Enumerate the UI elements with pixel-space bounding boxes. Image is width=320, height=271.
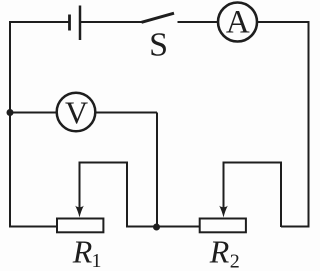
wire bottom middle R1 loop to junction xyxy=(126,226,158,228)
wire ammeter to top-right corner xyxy=(257,21,309,23)
wire top-left horizontal xyxy=(10,21,69,23)
svg-text:R: R xyxy=(72,234,93,270)
svg-text:2: 2 xyxy=(230,251,240,271)
wire switch to ammeter xyxy=(178,21,219,23)
node junction left (voltmeter tap) xyxy=(7,109,14,116)
label R2 xyxy=(209,234,240,271)
wire R2 wiper loop xyxy=(224,163,282,228)
wire bottom-left to R1 xyxy=(10,226,57,228)
svg-text:S: S xyxy=(149,27,168,64)
wire left to voltmeter xyxy=(10,112,57,114)
rheostat R2 body xyxy=(200,219,246,233)
voltmeter V1 xyxy=(57,93,96,132)
rheostat R1 body xyxy=(57,219,103,233)
ammeter A1 xyxy=(218,3,257,42)
svg-text:R: R xyxy=(209,234,230,270)
arrowhead R2 wiper xyxy=(219,206,228,218)
wire bottom-right horizontal xyxy=(281,226,309,228)
wire junction to R2 xyxy=(156,226,199,228)
wire left vertical xyxy=(9,21,11,228)
svg-text:1: 1 xyxy=(92,250,102,271)
switch S blade xyxy=(142,13,175,22)
svg-text:A: A xyxy=(226,5,250,41)
wire right vertical xyxy=(308,21,310,228)
arrowhead R1 wiper xyxy=(75,206,84,218)
label S xyxy=(149,27,168,64)
label R1 xyxy=(72,234,102,271)
wire R1 wiper loop xyxy=(80,163,128,227)
node junction bottom xyxy=(153,224,160,231)
wire battery to switch xyxy=(81,21,143,23)
svg-text:V: V xyxy=(65,95,88,131)
wire voltmeter branch vertical xyxy=(156,113,158,228)
wire voltmeter to down branch xyxy=(96,112,158,114)
battery BT1 xyxy=(70,6,81,41)
